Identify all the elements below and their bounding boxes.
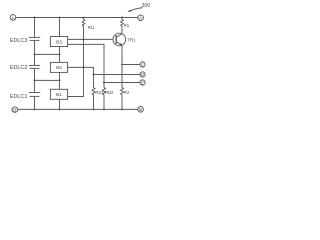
- svg-text:R1: R1: [124, 23, 130, 28]
- svg-text:RD2: RD2: [105, 90, 114, 95]
- node RD2 / terminal E wire: [103, 82, 105, 84]
- node top rail / RU: [83, 17, 85, 19]
- terminal C: [140, 62, 145, 67]
- node top rail / B3 feed: [59, 17, 61, 19]
- wire B2 pin to RD1: [68, 67, 94, 74]
- wire top rail: [16, 17, 138, 19]
- wire RU line down to B2 pin: [83, 39, 85, 67]
- block B2: [50, 62, 67, 72]
- block B3: [50, 37, 67, 47]
- node n2 chain: [34, 53, 36, 55]
- terminal E: [140, 80, 145, 85]
- node top rail / R1: [121, 17, 123, 19]
- wire B1 bottom feed: [59, 99, 61, 109]
- capacitor C2 (EDLC2): [29, 65, 40, 68]
- wire chain C2 to C1: [34, 68, 36, 92]
- wire B1 top feed: [59, 80, 61, 89]
- node bottom rail / B1: [59, 108, 61, 110]
- resistor RD2: [103, 88, 106, 110]
- block B1: [50, 89, 67, 99]
- node bottom rail / R2: [121, 108, 123, 110]
- svg-text:B: B: [13, 108, 16, 113]
- resistor RD1: [92, 88, 95, 110]
- wire B2 bottom feed: [59, 72, 61, 80]
- capacitor C1 (EDLC1): [29, 93, 40, 97]
- svg-text:E: E: [141, 80, 144, 85]
- wire base line from B3 to TR1: [68, 38, 114, 40]
- reference numeral 300: [127, 3, 150, 12]
- node RD1 / terminal D wire: [93, 74, 95, 76]
- wire bottom rail: [18, 108, 138, 110]
- terminal D: [140, 72, 145, 77]
- wire B3 top feed: [59, 18, 61, 37]
- svg-text:RU: RU: [88, 25, 94, 30]
- svg-text:EDLC3: EDLC3: [10, 38, 28, 44]
- wire to terminal C: [122, 64, 140, 66]
- resistor RU: [82, 18, 85, 40]
- wire RU line down to B1 pin corner: [68, 67, 84, 96]
- wire chain C1 to bottom rail: [34, 96, 36, 109]
- wire to terminal D: [94, 74, 141, 76]
- wire interconnect n2: [35, 53, 60, 55]
- svg-text:R2: R2: [124, 90, 130, 95]
- svg-text:EDLC1: EDLC1: [10, 94, 28, 100]
- wire chain C3 to node n2: [34, 40, 36, 65]
- svg-text:EDLC2: EDLC2: [10, 65, 28, 71]
- wire B3 bottom feed: [59, 47, 61, 55]
- node emitter / terminal C wire: [121, 64, 123, 66]
- terminal A top-left: [10, 15, 16, 21]
- terminal B bottom-right: [138, 107, 144, 113]
- terminal A top-right: [138, 15, 144, 21]
- wire capacitor chain x=34.5: [34, 18, 36, 38]
- wire interconnect n1: [35, 79, 60, 81]
- node top rail / capacitor chain: [34, 17, 36, 19]
- node n2 / B boxes: [59, 53, 61, 55]
- capacitor C3 (EDLC3): [29, 37, 40, 40]
- svg-text:B2: B2: [56, 65, 62, 71]
- resistor R2: [121, 88, 124, 110]
- wire B3 lower pin to RD2: [68, 44, 104, 87]
- transistor TR1: [113, 33, 126, 46]
- resistor R1: [121, 18, 124, 34]
- svg-text:B1: B1: [56, 92, 62, 98]
- svg-text:B3: B3: [56, 39, 62, 45]
- wire B2 top feed: [59, 54, 61, 62]
- svg-text:D: D: [141, 72, 144, 77]
- node bottom rail / RD1: [93, 108, 95, 110]
- svg-text:B: B: [139, 107, 142, 112]
- node bottom rail / chain: [34, 108, 36, 110]
- wire TR1 emitter down: [121, 46, 123, 88]
- node bottom rail / RD2: [103, 108, 105, 110]
- node base / RU: [83, 38, 85, 40]
- svg-text:300: 300: [142, 3, 151, 9]
- node B2 pin / RU line: [83, 66, 85, 68]
- node n1 / B boxes: [59, 79, 61, 81]
- wire to terminal E: [104, 82, 140, 84]
- svg-text:C: C: [141, 62, 144, 67]
- svg-text:TR1: TR1: [127, 37, 136, 42]
- terminal B bottom-left: [12, 107, 18, 113]
- node n1 chain: [34, 79, 36, 81]
- wire RD1 down to zigzag: [93, 75, 95, 88]
